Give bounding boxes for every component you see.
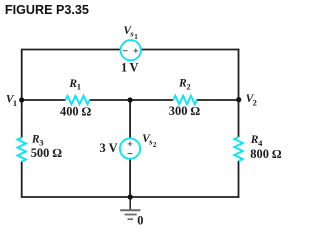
resistor R2 (173, 96, 196, 105)
ground junction dot (128, 194, 133, 199)
label R2 (178, 78, 191, 92)
voltage source Vs2 circle (120, 138, 140, 158)
wire middle horizontal segment V1 to R1 (22, 99, 66, 101)
node middle junction dot (128, 97, 133, 102)
Vs2 plus sign (128, 142, 133, 147)
label Vs2 (142, 133, 157, 149)
wire ground stub (129, 197, 131, 210)
voltage source Vs1 circle (121, 40, 141, 60)
resistor R1 (66, 96, 90, 105)
label R4 (250, 134, 263, 148)
svg-text:2: 2 (253, 97, 257, 107)
wire bottom horizontal (21, 196, 239, 198)
wire middle branch upper (node to Vs2) (129, 100, 131, 139)
svg-text:2: 2 (186, 81, 190, 91)
svg-text:1: 1 (77, 82, 81, 92)
wire right vertical upper (238, 49, 240, 137)
wire right vertical lower (238, 161, 240, 198)
node label V1 (6, 94, 17, 108)
wire top-right horizontal (141, 49, 239, 51)
wire middle horizontal segment R2 to V2 (197, 99, 239, 101)
wire top-left horizontal (22, 49, 121, 51)
label Vs1 (123, 25, 138, 41)
node label V2 (246, 93, 257, 107)
node V2 junction dot (236, 97, 241, 102)
svg-text:1: 1 (13, 98, 17, 108)
resistor R3 (17, 138, 26, 162)
svg-text:3 V: 3 V (100, 141, 118, 155)
node V1 junction dot (19, 97, 24, 102)
label R1 (68, 78, 81, 92)
ground symbol (120, 210, 140, 219)
svg-text:800 Ω: 800 Ω (250, 147, 282, 161)
label R3 (31, 134, 44, 148)
wire left vertical lower (21, 162, 23, 198)
svg-text:2: 2 (153, 141, 157, 149)
svg-text:300 Ω: 300 Ω (169, 104, 201, 118)
svg-text:FIGURE P3.35: FIGURE P3.35 (5, 3, 89, 17)
Vs2 minus sign (128, 153, 133, 155)
Vs1 minus sign (123, 50, 128, 52)
resistor R4 (234, 137, 243, 161)
Vs1 plus sign (134, 48, 139, 53)
wire middle horizontal segment R1 to R2 (90, 99, 174, 101)
svg-text:1: 1 (134, 33, 138, 41)
svg-text:400 Ω: 400 Ω (60, 104, 92, 118)
svg-text:1 V: 1 V (121, 61, 139, 75)
svg-text:0: 0 (137, 214, 143, 228)
wire middle branch lower (Vs2 to bottom) (129, 159, 131, 197)
svg-text:500 Ω: 500 Ω (31, 146, 63, 160)
wire left vertical upper (21, 49, 23, 138)
